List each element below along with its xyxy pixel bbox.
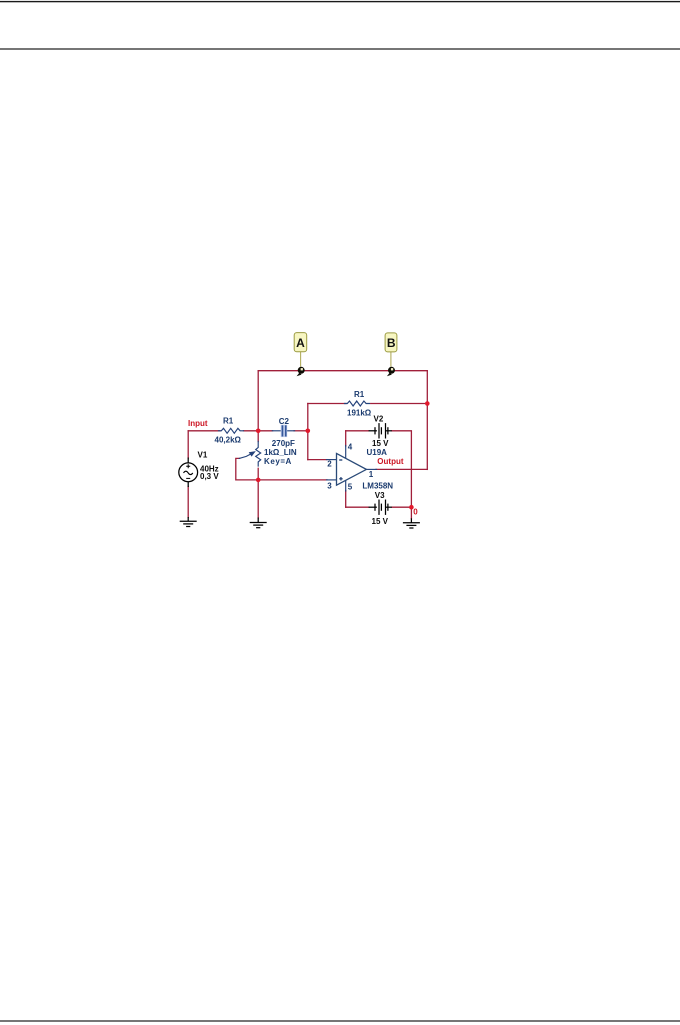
svg-text:Key=A: Key=A (264, 457, 292, 466)
svg-text:U19A: U19A (367, 448, 388, 457)
svg-text:LM358N: LM358N (362, 481, 393, 490)
svg-text:5: 5 (348, 482, 353, 491)
svg-text:4: 4 (348, 443, 353, 452)
svg-text:0: 0 (413, 508, 418, 517)
svg-text:2: 2 (327, 460, 332, 469)
svg-text:Output: Output (377, 457, 404, 466)
svg-text:R1: R1 (223, 417, 234, 426)
svg-text:15 V: 15 V (372, 439, 389, 448)
svg-text:0,3 V: 0,3 V (200, 472, 219, 481)
svg-text:40,2kΩ: 40,2kΩ (215, 435, 242, 444)
svg-text:R1: R1 (354, 390, 365, 399)
svg-text:Input: Input (188, 419, 208, 428)
svg-text:1kΩ_LIN: 1kΩ_LIN (264, 448, 297, 457)
svg-text:C2: C2 (279, 417, 290, 426)
svg-text:15 V: 15 V (372, 517, 389, 526)
svg-text:3: 3 (327, 482, 332, 491)
svg-text:V1: V1 (198, 451, 208, 460)
svg-text:V3: V3 (375, 491, 385, 500)
svg-text:V2: V2 (374, 415, 384, 424)
svg-text:B: B (387, 336, 396, 350)
svg-text:A: A (296, 336, 305, 350)
svg-text:191kΩ: 191kΩ (347, 408, 372, 417)
svg-text:270pF: 270pF (272, 439, 295, 448)
svg-text:1: 1 (369, 470, 374, 479)
